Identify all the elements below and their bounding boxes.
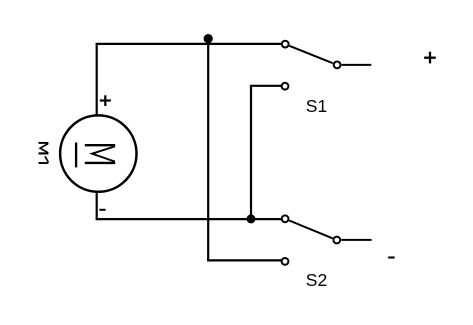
node junction bottom [247, 214, 256, 223]
svg-text:S2: S2 [306, 270, 327, 290]
label - (motor negative terminal) [99, 209, 105, 211]
node junction top [204, 34, 213, 43]
wire to S2 lower contact [207, 259, 281, 261]
wire bottom rail [96, 218, 282, 220]
switch S1 contact bottom [282, 83, 289, 90]
switch S2 lever [289, 221, 332, 239]
switch S1 contact top [282, 41, 289, 48]
wire S2 output [341, 239, 371, 241]
wire bottom junction up [250, 86, 252, 219]
wire to S1 lower contact [250, 85, 281, 87]
switch S2 common pole [333, 237, 340, 244]
wire top junction down [207, 44, 209, 261]
switch S1 lever [289, 46, 333, 63]
switch S2 contact bottom [282, 258, 289, 265]
label + (motor positive terminal) [100, 95, 111, 106]
wire top rail [96, 43, 282, 45]
wire S1 output [342, 64, 372, 66]
svg-text:S1: S1 [306, 96, 327, 116]
motor M1 glyph M (rotated) [76, 143, 115, 168]
label - (supply negative) [388, 256, 394, 258]
switch S2 contact top [282, 215, 289, 222]
label + (supply positive) [424, 52, 436, 64]
wire motor top to top rail [96, 44, 98, 115]
label M1 (rotated) [39, 143, 49, 163]
switch S1 common pole [334, 62, 341, 69]
wire motor bottom [96, 193, 98, 220]
motor M1 [60, 115, 136, 191]
